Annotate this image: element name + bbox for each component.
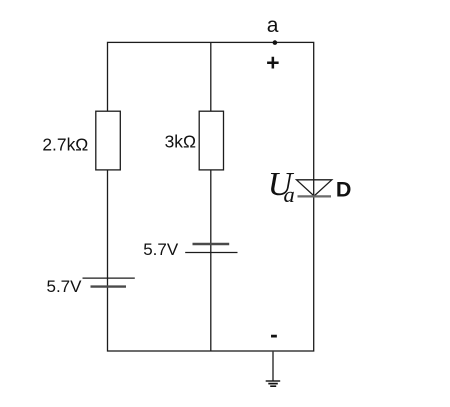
svg-text:5.7V: 5.7V	[143, 240, 179, 259]
svg-text:2.7kΩ: 2.7kΩ	[42, 135, 88, 155]
svg-text:5.7V: 5.7V	[47, 277, 83, 296]
svg-text:D: D	[336, 178, 352, 202]
svg-text:3kΩ: 3kΩ	[165, 132, 196, 152]
svg-text:+: +	[266, 50, 279, 76]
svg-text:a: a	[267, 14, 279, 37]
svg-text:-: -	[270, 321, 278, 347]
svg-text:a: a	[284, 182, 295, 207]
